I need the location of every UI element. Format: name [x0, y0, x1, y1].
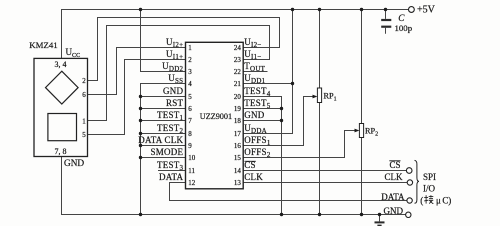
- svg-text:100p: 100p: [395, 23, 413, 33]
- svg-text:GND: GND: [163, 86, 183, 96]
- svg-text:DATA: DATA: [381, 192, 405, 202]
- svg-text:CLK: CLK: [385, 172, 404, 182]
- svg-text:GND: GND: [384, 206, 404, 216]
- svg-text:6: 6: [82, 91, 86, 99]
- svg-text:5: 5: [188, 93, 192, 101]
- svg-text:15: 15: [234, 154, 242, 162]
- svg-text:I/O: I/O: [423, 183, 435, 193]
- svg-text:UZZ9001: UZZ9001: [200, 112, 232, 121]
- svg-text:3, 4: 3, 4: [55, 60, 67, 69]
- svg-text:17: 17: [234, 130, 242, 138]
- svg-text:+5V: +5V: [417, 5, 436, 16]
- svg-text:22: 22: [234, 68, 242, 76]
- svg-text:23: 23: [234, 56, 242, 64]
- svg-text:21: 21: [234, 80, 242, 88]
- svg-text:20: 20: [234, 93, 242, 101]
- svg-text:KMZ41: KMZ41: [29, 40, 57, 50]
- svg-text:DATA CLK: DATA CLK: [138, 135, 183, 145]
- svg-text:19: 19: [234, 105, 242, 113]
- svg-text:16: 16: [234, 142, 242, 150]
- svg-text:14: 14: [234, 167, 242, 175]
- svg-text:8: 8: [188, 130, 192, 138]
- svg-text:9: 9: [188, 142, 192, 150]
- svg-text:7, 8: 7, 8: [55, 147, 67, 156]
- svg-text:6: 6: [188, 105, 192, 113]
- svg-text:): ): [448, 195, 451, 205]
- svg-text:GND: GND: [244, 110, 264, 120]
- svg-text:2: 2: [188, 56, 192, 64]
- svg-text:2: 2: [82, 77, 86, 85]
- svg-text:4: 4: [188, 80, 192, 88]
- svg-text:1: 1: [188, 44, 192, 52]
- svg-text:RST: RST: [166, 98, 184, 108]
- svg-text:18: 18: [234, 117, 242, 125]
- svg-text:24: 24: [234, 44, 242, 52]
- svg-text:10: 10: [188, 154, 196, 162]
- svg-text:3: 3: [188, 68, 192, 76]
- svg-text:DATA: DATA: [159, 172, 184, 182]
- svg-text:1: 1: [82, 118, 86, 126]
- svg-text:7: 7: [188, 117, 192, 125]
- svg-text:11: 11: [188, 167, 195, 175]
- svg-text:CS: CS: [389, 160, 400, 170]
- svg-text:5: 5: [82, 131, 86, 139]
- svg-text:12: 12: [188, 179, 196, 187]
- svg-text:CLK: CLK: [244, 172, 263, 182]
- svg-text:GND: GND: [64, 159, 84, 169]
- svg-text:13: 13: [234, 179, 242, 187]
- svg-text:SMODE: SMODE: [151, 147, 184, 157]
- svg-text:SPI: SPI: [423, 172, 436, 182]
- svg-text:(: (: [420, 195, 423, 205]
- svg-text:μ: μ: [436, 195, 441, 205]
